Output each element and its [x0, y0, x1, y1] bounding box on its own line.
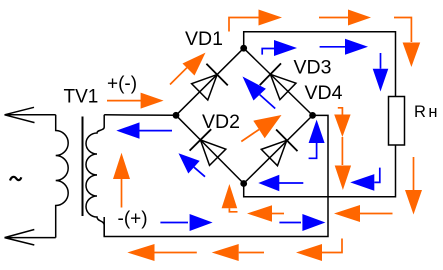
orange arrow: leftward above bottom-right wire: [334, 205, 393, 222]
orange arrow: secondary top into left node: [107, 93, 164, 109]
node bottom (junction dot): [240, 180, 247, 187]
diode VD4: [259, 129, 298, 168]
blue arrow: leftward below resistor with hook: [350, 168, 380, 191]
orange arrow: down right of resistor: [405, 157, 422, 215]
svg-text:+(-): +(-): [107, 74, 137, 95]
orange arrow: diagonal along VD4: [241, 115, 281, 142]
transformer core: [82, 117, 84, 217]
blue arrows: bottom wire rightward: [160, 214, 325, 231]
orange arrows: double down between bridge and resistor: [334, 108, 351, 190]
wire bridge edge top-right: [244, 48, 313, 115]
svg-text:VD4: VD4: [305, 82, 343, 104]
svg-text:Rн: Rн: [414, 103, 438, 121]
wire bridge edge bottom-right: [244, 115, 313, 183]
orange arrows: bottom return row leftward: [127, 239, 342, 262]
wire right node to secondary bottom: [104, 115, 328, 236]
transformer TV1 secondary winding: [86, 115, 104, 237]
transformer TV1 primary top terminal: [5, 107, 56, 122]
AC source tilde symbol: [10, 177, 21, 181]
node right (junction dot): [309, 112, 316, 119]
orange arrow path: top wire rightward: [229, 10, 420, 68]
resistor Rн: [389, 97, 405, 146]
blue arrow: down left of resistor: [373, 53, 389, 92]
blue arrow: diagonal along VD3: [243, 77, 276, 109]
wire bridge edge left-top: [176, 48, 244, 115]
blue arrow: diagonal along VD2: [179, 153, 206, 176]
diode VD2: [190, 129, 229, 168]
svg-text:VD1: VD1: [185, 28, 223, 50]
blue arrow: leftward into bottom node: [258, 175, 303, 191]
orange arrow: diagonal along VD1: [170, 53, 206, 85]
blue arrow: up into right node: [309, 120, 325, 159]
svg-text:-(+): -(+): [118, 209, 148, 230]
svg-text:VD2: VD2: [202, 111, 240, 133]
diode VD3: [260, 63, 299, 102]
wire bridge edge left-bottom: [176, 115, 244, 183]
diode VD1: [189, 64, 228, 103]
orange arrow: leftward toward bottom node: [247, 205, 284, 221]
orange arrow: up into bottom node: [222, 184, 238, 212]
wire secondary top to left node: [104, 114, 176, 117]
node left (junction dot): [173, 112, 180, 119]
svg-text:VD3: VD3: [294, 56, 332, 78]
transformer TV1 primary bottom terminal: [5, 230, 56, 246]
blue arrow: leftward on secondary top wire: [116, 122, 172, 138]
orange arrow: up through secondary: [113, 153, 130, 208]
node top (junction dot): [240, 45, 247, 52]
wire load resistor bottom to bottom node: [244, 145, 396, 197]
svg-text:TV1: TV1: [64, 87, 99, 108]
blue arrows: top wire rightward: [262, 39, 368, 56]
transformer TV1 primary winding: [56, 115, 68, 238]
wire top node to load resistor top: [244, 32, 396, 97]
